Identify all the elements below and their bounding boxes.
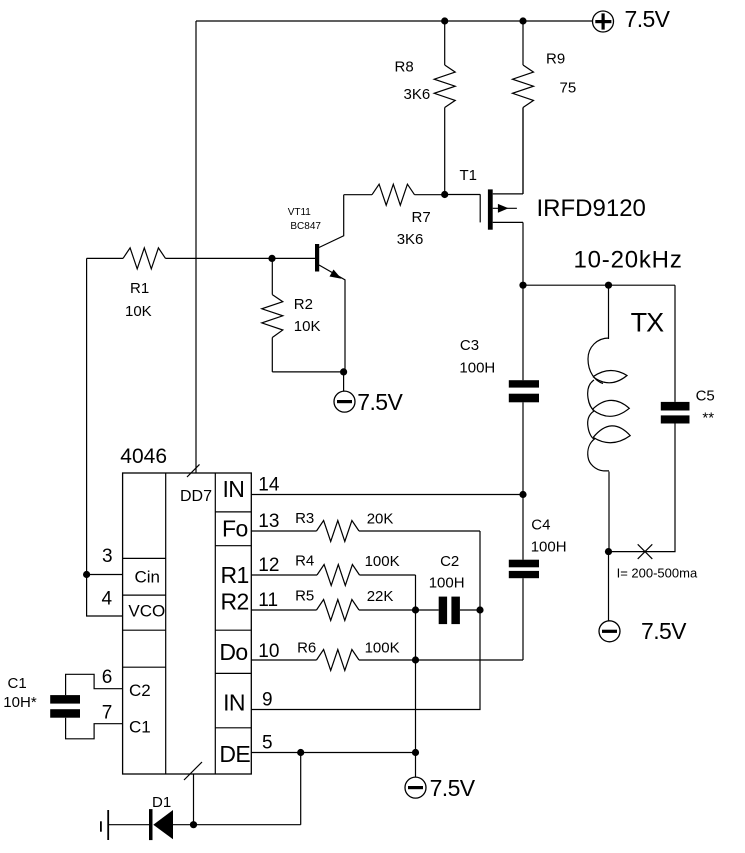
wire left drop to 4046 — [195, 21, 197, 473]
junction dot emitter bottom — [340, 368, 347, 375]
svg-text:3K6: 3K6 — [397, 231, 424, 248]
svg-text:10: 10 — [258, 641, 279, 662]
svg-text:10H*: 10H* — [3, 694, 37, 711]
slash top — [187, 464, 200, 477]
junction dot DE diode — [297, 749, 304, 756]
power +7.5V terminal — [593, 6, 671, 32]
svg-text:Do: Do — [219, 639, 247, 665]
svg-text:DE: DE — [219, 741, 250, 767]
junction dot rail TX — [605, 282, 612, 289]
capacitor C4 — [509, 517, 567, 579]
svg-text:R8: R8 — [395, 58, 414, 75]
svg-text:100H: 100H — [429, 575, 465, 592]
svg-text:R4: R4 — [295, 553, 314, 570]
wire C4 bottom to Do line — [522, 578, 524, 660]
svg-text:10K: 10K — [294, 318, 321, 335]
svg-text:IN: IN — [223, 690, 245, 716]
wire Fo net vertical to pin9 — [251, 531, 480, 710]
svg-text:R9: R9 — [546, 51, 565, 68]
svg-text:C1: C1 — [8, 675, 27, 692]
resistor R9 — [513, 21, 577, 194]
svg-text:3: 3 — [102, 546, 113, 567]
svg-text:Cin: Cin — [135, 567, 161, 586]
svg-text:20K: 20K — [367, 511, 394, 528]
IC U1 4046 body — [120, 445, 251, 774]
svg-text:13: 13 — [258, 511, 279, 532]
wire top rail — [196, 20, 593, 22]
svg-text:C2: C2 — [129, 681, 151, 700]
wire R2 bottom to emitter — [272, 371, 343, 373]
junction dot R9 top — [519, 17, 526, 24]
wire diode to DE riser — [173, 753, 301, 825]
power -7.5V terminal mid — [334, 372, 403, 415]
svg-text:4: 4 — [102, 589, 113, 610]
svg-text:5: 5 — [262, 733, 273, 754]
svg-text:IRFD9120: IRFD9120 — [537, 195, 646, 222]
svg-text:R6: R6 — [297, 640, 316, 657]
junction dot C2 right — [476, 606, 483, 613]
svg-text:T1: T1 — [460, 167, 478, 184]
wire pin5 DE — [251, 752, 415, 754]
svg-text:D1: D1 — [152, 794, 171, 811]
svg-text:R2: R2 — [294, 296, 313, 313]
wire C3 to C4 — [522, 402, 524, 559]
svg-text:**: ** — [702, 410, 714, 427]
svg-text:Fo: Fo — [222, 516, 248, 542]
wire C5 down and bottom link — [609, 424, 676, 552]
wire T1 source up / drain down — [522, 108, 524, 194]
junction dot R8 top — [441, 17, 448, 24]
wire base — [272, 257, 315, 259]
svg-text:14: 14 — [258, 475, 280, 496]
svg-text:10K: 10K — [125, 303, 152, 320]
wire right branch down — [674, 285, 676, 402]
svg-text:7.5V: 7.5V — [625, 6, 671, 32]
svg-text:7.5V: 7.5V — [641, 618, 687, 644]
svg-text:100H: 100H — [531, 538, 567, 555]
junction dot base — [268, 255, 275, 262]
svg-text:DD7: DD7 — [180, 488, 212, 505]
svg-text:C1: C1 — [129, 718, 151, 737]
svg-text:VCO: VCO — [128, 601, 165, 620]
wire mid rail — [523, 284, 675, 286]
resistor R2 — [262, 258, 321, 372]
power -7.5V terminal right — [599, 552, 687, 644]
svg-text:9: 9 — [262, 690, 273, 711]
junction dot C2 left — [412, 606, 419, 613]
X current mark — [638, 544, 653, 559]
svg-text:R5: R5 — [295, 588, 314, 605]
svg-text:100K: 100K — [365, 553, 400, 570]
svg-text:7.5V: 7.5V — [357, 389, 403, 415]
ground — [101, 810, 108, 840]
resistor R8 — [395, 21, 456, 195]
svg-text:11: 11 — [258, 590, 278, 611]
junction dot diode — [190, 821, 197, 828]
junction dot pin3 — [83, 571, 90, 578]
svg-text:R1: R1 — [221, 562, 249, 588]
svg-text:C2: C2 — [440, 553, 459, 570]
capacitor C3 — [459, 285, 539, 402]
svg-text:75: 75 — [560, 80, 577, 97]
svg-text:7: 7 — [102, 702, 113, 723]
junction dot pin14 net — [519, 491, 526, 498]
resistor R4 — [251, 553, 415, 586]
svg-text:10-20kHz: 10-20kHz — [574, 247, 683, 274]
capacitor C2 — [429, 553, 480, 624]
svg-text:IN: IN — [223, 476, 245, 502]
svg-text:12: 12 — [258, 555, 279, 576]
svg-text:I= 200-500ma: I= 200-500ma — [617, 566, 698, 581]
resistor R7 — [344, 184, 445, 248]
junction dot rail left — [519, 282, 526, 289]
resistor R6 — [251, 640, 523, 671]
transistor T1 IRFD9120 — [460, 167, 646, 230]
junction dot DE vertical — [412, 749, 419, 756]
svg-text:22K: 22K — [367, 588, 394, 605]
junction dot gate/R8 — [441, 191, 448, 198]
wire gate — [445, 194, 481, 196]
resistor R1 — [87, 248, 272, 320]
wire 4046 bottom to diode — [193, 774, 195, 825]
svg-text:R2: R2 — [221, 589, 249, 615]
svg-text:R7: R7 — [412, 209, 431, 226]
svg-text:BC847: BC847 — [290, 221, 321, 232]
capacitor C5 — [661, 388, 715, 427]
svg-text:3K6: 3K6 — [404, 86, 431, 103]
transistor VT11 BC847 — [288, 195, 345, 372]
svg-text:TX: TX — [631, 308, 664, 338]
capacitor C1 — [3, 674, 122, 739]
junction dot R6 vertical — [412, 656, 419, 663]
wire ground to diode — [108, 824, 149, 826]
resistor R3 — [251, 510, 480, 541]
wire R1 left down to pins 3,4 — [87, 258, 123, 616]
diode D1 — [149, 794, 173, 840]
svg-text:C3: C3 — [460, 337, 479, 354]
wire R4 net vertical down — [415, 575, 417, 777]
power -7.5V terminal bottom — [405, 775, 476, 801]
svg-text:7.5V: 7.5V — [430, 775, 476, 801]
inductor TX coil — [588, 285, 631, 551]
svg-text:4046: 4046 — [120, 445, 167, 468]
svg-text:6: 6 — [102, 667, 113, 688]
svg-text:100H: 100H — [459, 359, 495, 376]
wire pin14 to C3C4 — [251, 494, 523, 496]
svg-text:100K: 100K — [365, 640, 400, 657]
svg-text:R1: R1 — [130, 280, 149, 297]
resistor R5 — [251, 588, 438, 621]
junction dot TX bottom — [605, 548, 612, 555]
svg-text:C5: C5 — [696, 388, 715, 405]
slash bottom — [184, 762, 202, 780]
svg-text:R3: R3 — [295, 510, 314, 527]
svg-text:C4: C4 — [531, 517, 550, 534]
svg-text:VT11: VT11 — [288, 207, 312, 218]
